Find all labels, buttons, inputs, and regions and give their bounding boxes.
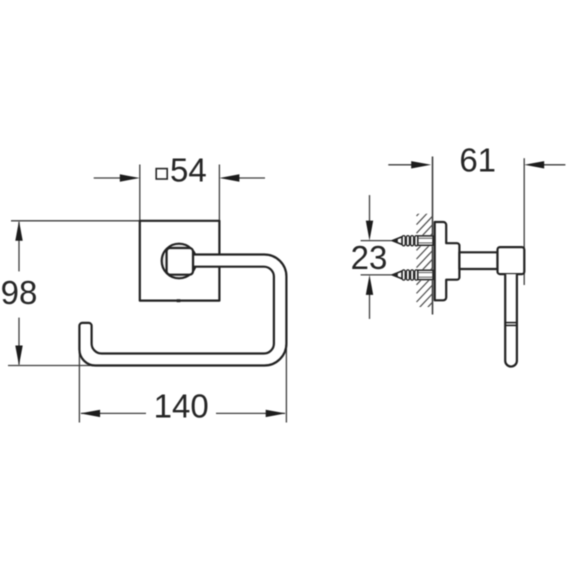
svg-text:23: 23 [351, 239, 388, 276]
svg-text:54: 54 [170, 152, 207, 189]
svg-text:140: 140 [154, 388, 209, 425]
svg-text:98: 98 [1, 274, 38, 311]
svg-text:61: 61 [459, 141, 496, 178]
